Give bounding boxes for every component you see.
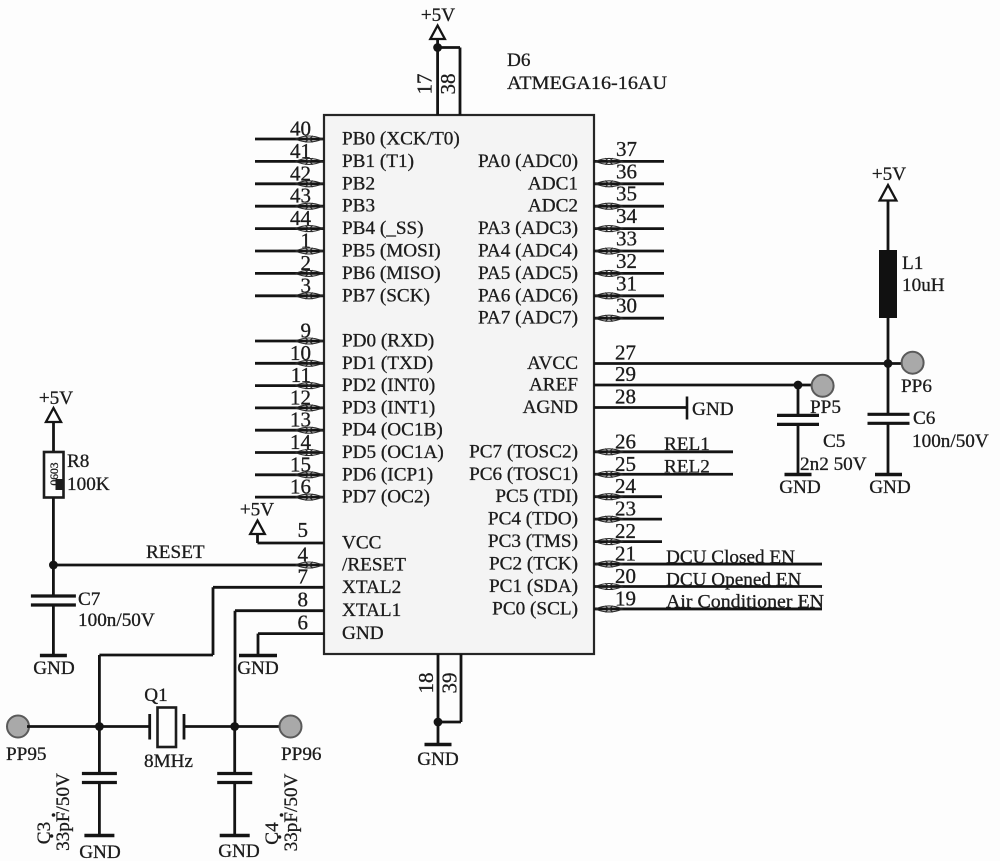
- svg-text:C7: C7: [78, 589, 101, 610]
- svg-text:REL1: REL1: [664, 434, 710, 455]
- pin 9 PD0 (RXD) wire: [255, 319, 434, 352]
- +5V supply at pins 17/38: [421, 5, 455, 47]
- pin 42 PB2 wire: [255, 161, 375, 194]
- net label DCU Closed EN: [666, 547, 795, 568]
- svg-text:+5V: +5V: [240, 500, 274, 521]
- +5V supply above R8: [39, 388, 73, 452]
- ground below C7: [33, 605, 75, 679]
- wire AREF node to C5: [797, 385, 800, 415]
- svg-text:GND: GND: [692, 399, 734, 420]
- wire XTAL2 to crystal left node: [99, 587, 213, 726]
- svg-text:12: 12: [290, 385, 311, 409]
- svg-text:100n/50V: 100n/50V: [912, 431, 989, 452]
- svg-text:DCU Closed EN: DCU Closed EN: [666, 547, 795, 568]
- svg-text:PB4 (_SS): PB4 (_SS): [342, 218, 424, 239]
- svg-text:23: 23: [615, 497, 636, 521]
- svg-text:D6: D6: [507, 50, 531, 71]
- pin 36 ADC1 wire: [528, 159, 664, 194]
- svg-text:1: 1: [301, 229, 312, 253]
- pin 6 GND wire: [258, 611, 384, 645]
- net label DCU Opened EN: [666, 570, 801, 591]
- pin 14 PD5 (OC1A) wire: [255, 430, 444, 463]
- svg-text:PA6 (ADC6): PA6 (ADC6): [478, 285, 578, 306]
- svg-text:41: 41: [290, 139, 311, 163]
- svg-text:33pF/50V: 33pF/50V: [281, 773, 302, 851]
- svg-text:10uH: 10uH: [902, 275, 945, 296]
- svg-text:GND: GND: [342, 623, 384, 644]
- pin 24 PC5 (TDI) wire: [495, 474, 662, 507]
- inductor L1: [879, 250, 897, 318]
- svg-text:3: 3: [301, 273, 312, 297]
- junction left crystal node: [95, 722, 104, 731]
- svg-text:24: 24: [615, 474, 637, 498]
- svg-text:7: 7: [298, 565, 309, 589]
- +5V supply at pin 5 VCC: [240, 500, 274, 544]
- pin 43 PB3 wire: [255, 184, 375, 217]
- svg-text:PC3 (TMS): PC3 (TMS): [488, 531, 578, 552]
- pin 27 AVCC wire: [527, 341, 903, 375]
- pin 37 PA0 (ADC0) wire: [478, 137, 664, 172]
- svg-text:/RESET: /RESET: [342, 555, 406, 576]
- pin 23 PC4 (TDO) wire: [488, 497, 662, 530]
- pin 29 AREF wire: [529, 362, 813, 396]
- svg-text:44: 44: [290, 206, 312, 230]
- wire PP95 to left crystal node: [27, 725, 99, 728]
- IC D6 ATMEGA16-16AU body: [324, 115, 594, 654]
- svg-text:PD3 (INT1): PD3 (INT1): [342, 397, 435, 418]
- label C7: [78, 589, 101, 610]
- svg-text:35: 35: [616, 182, 637, 206]
- svg-text:18: 18: [414, 673, 438, 694]
- label L1: [902, 253, 923, 274]
- svg-text:+5V: +5V: [872, 164, 906, 185]
- pin 2 PB6 (MISO) wire: [255, 251, 441, 284]
- svg-text:26: 26: [615, 429, 636, 453]
- junction right crystal node: [230, 722, 239, 731]
- svg-text:40: 40: [290, 117, 311, 141]
- label C6: [913, 408, 936, 429]
- wire L1 to AVCC node: [887, 318, 890, 364]
- svg-text:PB6 (MISO): PB6 (MISO): [342, 263, 441, 284]
- pin 33 PA4 (ADC4) wire: [478, 227, 664, 262]
- label 100n/50V C6: [912, 431, 989, 452]
- ground at pin 28 AGND: [687, 397, 734, 421]
- svg-text:VCC: VCC: [342, 533, 381, 554]
- pin 31 PA6 (ADC6) wire: [478, 271, 664, 306]
- svg-text:9: 9: [301, 319, 312, 343]
- pin 20 PC1 (SDA) wire: [489, 564, 822, 597]
- label C3 rotated: [34, 813, 55, 844]
- svg-text:XTAL2: XTAL2: [342, 577, 401, 598]
- svg-text:38: 38: [436, 74, 460, 95]
- svg-text:2n2 50V: 2n2 50V: [800, 454, 867, 475]
- svg-text:R8: R8: [67, 451, 89, 472]
- svg-text:PC2 (TCK): PC2 (TCK): [489, 554, 578, 575]
- svg-text:C4: C4: [262, 822, 283, 845]
- test point PP6: [901, 352, 932, 397]
- svg-text:14: 14: [290, 430, 312, 454]
- svg-text:16: 16: [290, 475, 311, 499]
- ground below C5: [779, 424, 821, 498]
- svg-text:33: 33: [616, 227, 637, 251]
- capacitor C7: [31, 596, 76, 605]
- svg-text:GND: GND: [237, 658, 279, 679]
- svg-text:PP96: PP96: [281, 744, 322, 765]
- svg-text:PC6 (TOSC1): PC6 (TOSC1): [469, 464, 578, 485]
- svg-text:L1: L1: [902, 253, 923, 274]
- svg-text:20: 20: [615, 564, 636, 588]
- svg-text:PD5 (OC1A): PD5 (OC1A): [342, 442, 444, 463]
- pin 11 PD2 (INT0) wire: [255, 363, 435, 396]
- label Q1: [144, 685, 167, 706]
- capacitor C3: [82, 774, 117, 783]
- svg-text:29: 29: [615, 362, 636, 386]
- svg-text:100K: 100K: [67, 474, 110, 495]
- svg-text:PC4 (TDO): PC4 (TDO): [488, 509, 578, 530]
- svg-text:PA0 (ADC0): PA0 (ADC0): [478, 151, 578, 172]
- svg-text:PD4 (OC1B): PD4 (OC1B): [342, 420, 443, 441]
- pin 40 PB0 (XCK/T0) wire: [255, 117, 460, 150]
- svg-text:PB5 (MOSI): PB5 (MOSI): [342, 241, 441, 262]
- test point PP96: [280, 716, 322, 766]
- ground below C4: [218, 783, 260, 861]
- svg-text:39: 39: [438, 673, 462, 694]
- svg-text:C3: C3: [34, 822, 55, 844]
- svg-text:ATMEGA16-16AU: ATMEGA16-16AU: [507, 73, 667, 94]
- svg-text:C5: C5: [823, 431, 845, 452]
- svg-text:31: 31: [616, 271, 637, 295]
- wire left node to crystal: [99, 725, 149, 728]
- ground below pins 18/39: [417, 722, 459, 770]
- test point PP5: [810, 375, 841, 418]
- ground below C6: [869, 423, 911, 498]
- wire XTAL1 to crystal right node: [234, 611, 237, 727]
- svg-text:13: 13: [290, 408, 311, 432]
- svg-text:22: 22: [615, 519, 636, 543]
- svg-text:PC7 (TOSC2): PC7 (TOSC2): [469, 441, 578, 462]
- svg-text:27: 27: [615, 341, 636, 365]
- net label REL2: [664, 457, 710, 478]
- wire RESET node to C7: [52, 565, 55, 596]
- resistor R8: [44, 452, 64, 498]
- pin 38 wire: [436, 48, 460, 116]
- svg-text:PC0 (SCL): PC0 (SCL): [492, 598, 578, 619]
- IC part number ATMEGA16-16AU: [507, 73, 667, 94]
- svg-text:PP6: PP6: [901, 376, 932, 397]
- pin 8 XTAL1 wire: [235, 588, 401, 622]
- +5V supply above L1: [872, 164, 906, 250]
- label 100K: [67, 474, 110, 495]
- svg-text:PB7 (SCK): PB7 (SCK): [342, 285, 430, 306]
- pin 41 PB1 (T1) wire: [255, 139, 414, 172]
- svg-text:PD0 (RXD): PD0 (RXD): [342, 331, 434, 352]
- svg-text:PP95: PP95: [6, 744, 47, 765]
- pin 35 ADC2 wire: [528, 182, 664, 217]
- svg-text:34: 34: [616, 204, 638, 228]
- svg-text:GND: GND: [779, 477, 821, 498]
- wire left node to C3: [98, 727, 101, 774]
- ground at pin 6: [237, 634, 279, 679]
- svg-text:+5V: +5V: [39, 388, 73, 409]
- svg-text:PA5 (ADC5): PA5 (ADC5): [478, 263, 578, 284]
- pin 30 PA7 (ADC7) wire: [478, 294, 664, 329]
- pin 3 PB7 (SCK) wire: [255, 273, 430, 306]
- svg-text:36: 36: [616, 159, 637, 183]
- pin 21 PC2 (TCK) wire: [489, 542, 822, 575]
- ground below C3: [79, 783, 121, 861]
- svg-text:AVCC: AVCC: [527, 353, 578, 374]
- label R8: [67, 451, 89, 472]
- svg-text:GND: GND: [33, 658, 75, 679]
- svg-text:AREF: AREF: [529, 375, 578, 396]
- pin 18 wire: [414, 654, 438, 722]
- svg-text:8: 8: [298, 588, 309, 612]
- svg-text:4: 4: [298, 543, 309, 567]
- pin 16 PD7 (OC2) wire: [255, 475, 430, 508]
- svg-text:+5V: +5V: [421, 5, 455, 26]
- svg-text:5: 5: [298, 518, 309, 542]
- pin 44 PB4 (_SS) wire: [255, 206, 424, 239]
- pin 17 wire: [413, 48, 438, 116]
- wire crystal to right node: [184, 725, 235, 728]
- junction at +5V pins 17/38: [433, 43, 442, 52]
- svg-text:DCU Opened EN: DCU Opened EN: [666, 570, 801, 591]
- svg-text:AGND: AGND: [523, 397, 579, 418]
- svg-text:PB2: PB2: [342, 173, 375, 194]
- pin 10 PD1 (TXD) wire: [255, 341, 433, 374]
- svg-text:XTAL1: XTAL1: [342, 600, 401, 621]
- svg-text:PB1 (T1): PB1 (T1): [342, 151, 414, 172]
- pin 1 PB5 (MOSI) wire: [255, 229, 441, 262]
- pin 5 VCC wire: [258, 518, 382, 554]
- svg-text:6: 6: [298, 611, 309, 635]
- svg-text:10: 10: [290, 341, 311, 365]
- net label RESET: [146, 542, 205, 563]
- label 2n2 50V: [800, 454, 867, 475]
- svg-text:PB0 (XCK/T0): PB0 (XCK/T0): [342, 129, 460, 150]
- svg-text:PB3: PB3: [342, 196, 375, 217]
- pin 15 PD6 (ICP1) wire: [255, 452, 433, 485]
- svg-text:8MHz: 8MHz: [144, 751, 193, 772]
- svg-text:2: 2: [301, 251, 312, 275]
- svg-text:PC1 (SDA): PC1 (SDA): [489, 576, 578, 597]
- svg-text:C6: C6: [913, 408, 936, 429]
- svg-text:42: 42: [290, 161, 311, 185]
- svg-text:GND: GND: [869, 477, 911, 498]
- capacitor C4: [217, 774, 252, 783]
- capacitor C6: [868, 414, 910, 423]
- svg-text:30: 30: [616, 294, 637, 318]
- capacitor C5: [777, 415, 819, 424]
- svg-text:25: 25: [615, 452, 636, 476]
- svg-text:GND: GND: [417, 749, 459, 770]
- junction RESET node: [49, 561, 58, 570]
- pin 28 AGND wire: [523, 385, 687, 419]
- svg-text:REL2: REL2: [664, 457, 710, 478]
- svg-text:PD6 (ICP1): PD6 (ICP1): [342, 464, 433, 485]
- pin 34 PA3 (ADC3) wire: [478, 204, 664, 239]
- pin 12 PD3 (INT1) wire: [255, 385, 435, 418]
- junction pins 18/39: [434, 718, 443, 727]
- pin 25 PC6 (TOSC1) wire: [469, 452, 733, 485]
- junction AVCC node: [884, 359, 893, 368]
- pin 32 PA5 (ADC5) wire: [478, 249, 664, 284]
- svg-text:32: 32: [616, 249, 637, 273]
- svg-text:PD1 (TXD): PD1 (TXD): [342, 353, 433, 374]
- svg-text:Air Conditioner EN: Air Conditioner EN: [666, 592, 824, 613]
- svg-text:Q1: Q1: [144, 685, 167, 706]
- svg-text:PC5 (TDI): PC5 (TDI): [495, 486, 578, 507]
- label 100n/50V C7: [78, 610, 155, 631]
- svg-text:19: 19: [615, 586, 636, 610]
- pin 26 PC7 (TOSC2) wire: [469, 429, 733, 462]
- svg-text:RESET: RESET: [146, 542, 205, 563]
- svg-text:15: 15: [290, 452, 311, 476]
- svg-text:100n/50V: 100n/50V: [78, 610, 155, 631]
- pin 4 /RESET wire: [53, 543, 406, 576]
- svg-text:GND: GND: [79, 842, 121, 861]
- junction AREF node: [794, 381, 803, 390]
- crystal Q1: [150, 708, 184, 748]
- label C5: [823, 431, 845, 452]
- label 33pF/50V C3 rotated: [53, 773, 74, 851]
- label 8MHz: [144, 751, 193, 772]
- wire right node to PP96: [235, 725, 281, 728]
- wire R8 to RESET node: [52, 498, 55, 566]
- svg-text:28: 28: [615, 385, 636, 409]
- label 33pF/50V C4 rotated: [281, 773, 302, 851]
- IC reference designator D6: [507, 50, 531, 71]
- svg-text:GND: GND: [218, 841, 260, 861]
- net label REL1: [664, 434, 710, 455]
- svg-text:33pF/50V: 33pF/50V: [53, 773, 74, 851]
- svg-text:17: 17: [413, 74, 437, 95]
- label 10uH: [902, 275, 945, 296]
- pin 39 wire: [438, 654, 462, 722]
- net label Air Conditioner EN: [666, 592, 824, 613]
- svg-text:ADC1: ADC1: [528, 173, 578, 194]
- pin 13 PD4 (OC1B) wire: [255, 408, 443, 441]
- pin 7 XTAL2 wire: [213, 565, 401, 598]
- svg-text:37: 37: [616, 137, 637, 161]
- label C4 rotated: [262, 813, 283, 845]
- svg-text:43: 43: [290, 184, 311, 208]
- test point PP95: [6, 716, 47, 766]
- svg-text:PD2 (INT0): PD2 (INT0): [342, 375, 435, 396]
- pin 22 PC3 (TMS) wire: [488, 519, 662, 552]
- svg-text:ADC2: ADC2: [528, 196, 578, 217]
- pin 19 PC0 (SCL) wire: [492, 586, 822, 619]
- svg-text:11: 11: [291, 363, 311, 387]
- wire AVCC node to C6: [887, 364, 890, 415]
- svg-text:PD7 (OC2): PD7 (OC2): [342, 487, 430, 508]
- svg-text:PA4 (ADC4): PA4 (ADC4): [478, 241, 578, 262]
- svg-text:21: 21: [615, 542, 636, 566]
- svg-text:PA3 (ADC3): PA3 (ADC3): [478, 218, 578, 239]
- svg-text:PA7 (ADC7): PA7 (ADC7): [478, 308, 578, 329]
- wire right node to C4: [233, 727, 236, 774]
